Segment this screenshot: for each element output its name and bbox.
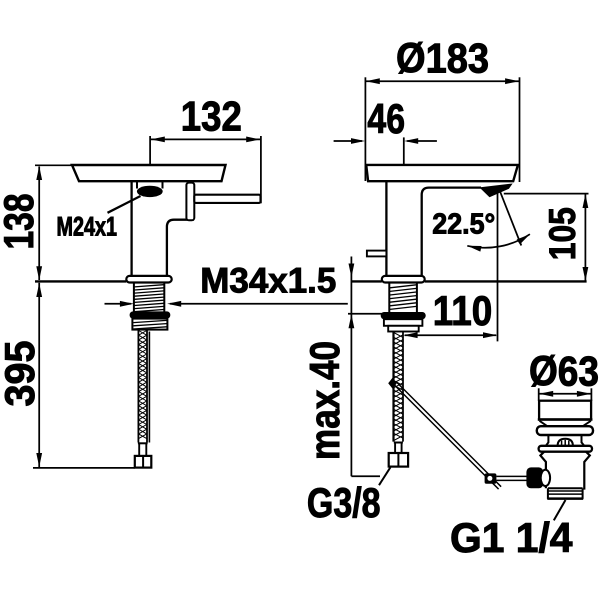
22.5 deg rotation arc with arrows [467, 234, 530, 248]
svg-text:46: 46 [367, 95, 405, 142]
side view: deck line right segment [425, 280, 587, 282]
dimension 110 [405, 334, 497, 336]
svg-text:105: 105 [541, 207, 583, 260]
front view: plate top extension line to 138 dim [35, 164, 74, 166]
side view: base flange [382, 276, 425, 283]
front view: lever handle bar [194, 195, 260, 203]
label G3/8 with leader [379, 467, 390, 485]
svg-text:max.40: max.40 [301, 341, 348, 460]
svg-text:110: 110 [433, 287, 493, 334]
side view: pop-up rod pivot (black) on hose [388, 378, 397, 389]
front view: aerator outlet (black ellipse) [137, 186, 163, 197]
handle axis line (vertical through tip) [497, 191, 499, 342]
svg-text:M34x1.5: M34x1.5 [200, 261, 336, 301]
svg-text:Ø183: Ø183 [396, 34, 489, 81]
pop-up rod clevis joint (black with hole) [485, 473, 497, 483]
drain: neck under plug [540, 421, 591, 426]
drain: basin flange washer [537, 426, 593, 435]
svg-text:G3/8: G3/8 [307, 479, 381, 526]
dimension 395 [38, 283, 40, 467]
side view: hose end nut G3/8 [389, 453, 408, 467]
side view: deck line left segment [351, 280, 381, 282]
label M24x1 with leader to aerator [108, 196, 141, 213]
front view: aerator housing walls [136, 182, 138, 189]
front view: connector below nut [132, 319, 167, 330]
front view: locknut (black) [130, 311, 171, 318]
drain: lower washer [539, 446, 592, 452]
dimension 132 [149, 136, 151, 165]
side view: body left edge [385, 181, 387, 276]
svg-text:22.5°: 22.5° [432, 209, 495, 241]
side view: plastic nut below [384, 319, 423, 326]
side view: locknut (black) [381, 312, 426, 319]
dimension Ø183 [364, 77, 366, 181]
handle rotated 22.5 deg radius line [500, 191, 522, 246]
label G1 1/4 with leader [554, 500, 566, 520]
svg-text:G1 1/4: G1 1/4 [450, 514, 573, 561]
dimension max.40 [350, 257, 352, 477]
front view: base flange [126, 276, 171, 283]
drain: plug head [539, 401, 591, 420]
front view: braided supply hose [138, 330, 147, 443]
dimension 138: extension uses plate-top line and deck line [38, 167, 40, 281]
front view: hose end reference line [33, 467, 135, 469]
front view: body left edge [130, 181, 132, 276]
dimension 105 [504, 193, 589, 195]
pop-up horizontal rod to drain lever [496, 475, 526, 477]
side view: hose end tube [394, 442, 396, 453]
front view: deck line [35, 280, 126, 282]
front view: handle escutcheon [186, 183, 194, 221]
pop-up rod stub below clevis [492, 483, 498, 489]
front view: body right step and edge [167, 220, 194, 277]
drain: G1 1/4 threaded end [548, 487, 583, 489]
front view: hose end nut G3/8 [135, 456, 152, 468]
drain: pop-up dome with slots [558, 439, 573, 446]
svg-text:395: 395 [0, 341, 43, 407]
side view: body right edge with corner to handle top [422, 188, 481, 276]
dimension 46 [403, 137, 405, 164]
drain: lever pivot ball [541, 470, 550, 486]
svg-text:Ø63: Ø63 [529, 347, 599, 394]
front view: threaded shank M34 [134, 283, 164, 312]
front view: hose end tube [138, 443, 140, 456]
drain: slotted crown [546, 435, 584, 446]
side view: spout plate [366, 165, 518, 181]
front view: second supply hose edge behind [148, 332, 150, 443]
pop-up rod (diagonal, double line) [393, 384, 488, 479]
dimension Ø63 [538, 388, 540, 401]
side view: set-screw tab on body [367, 251, 387, 257]
side view: lever handle tip wedge (black, tilted) [481, 184, 512, 197]
side view: threaded shank M34 [388, 283, 390, 313]
drain: lever knob (black) [526, 467, 543, 488]
svg-text:138: 138 [0, 194, 42, 250]
front view: spout plate [72, 165, 226, 181]
svg-text:M24x1: M24x1 [57, 212, 118, 242]
svg-text:132: 132 [181, 92, 242, 139]
drain: tailpiece body [540, 452, 546, 489]
side view: braided supply hose [392, 332, 394, 442]
